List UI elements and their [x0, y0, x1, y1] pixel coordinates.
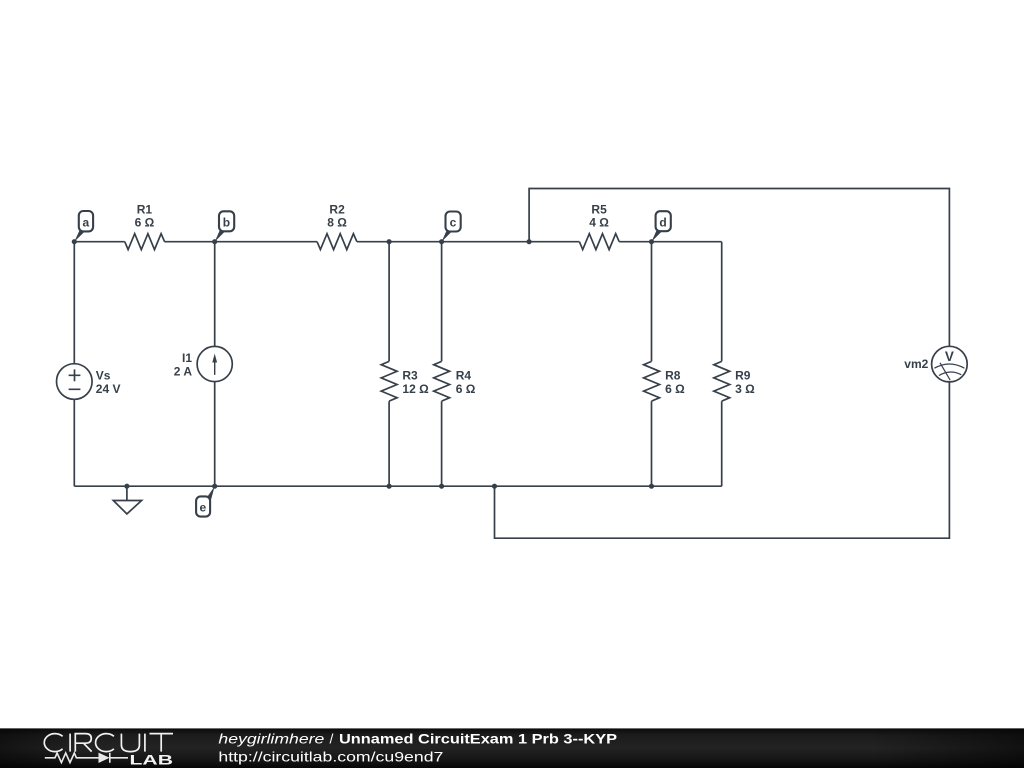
wire — [214, 242, 216, 487]
node a label — [74, 211, 93, 242]
svg-text:http://circuitlab.com/cu9end7: http://circuitlab.com/cu9end7 — [218, 749, 443, 765]
wire — [74, 485, 721, 487]
svg-text:3 Ω: 3 Ω — [735, 382, 755, 396]
resistor R9 — [714, 361, 730, 401]
voltmeter vm2 — [932, 346, 968, 382]
resistor R2 — [317, 234, 357, 250]
wire — [74, 241, 721, 243]
svg-text:LAB: LAB — [130, 751, 174, 767]
svg-text:4 Ω: 4 Ω — [589, 215, 609, 229]
resistor R1 — [125, 234, 165, 250]
junction ground — [124, 484, 129, 489]
svg-text:d: d — [659, 215, 666, 229]
svg-text:2 A: 2 A — [174, 365, 193, 379]
ground — [113, 486, 141, 514]
node b label — [215, 211, 235, 241]
node c label — [442, 212, 461, 242]
svg-text:V: V — [945, 349, 954, 364]
svg-text:a: a — [82, 216, 89, 230]
resistor R3 — [381, 361, 397, 401]
svg-text:R2: R2 — [329, 202, 345, 216]
junction — [649, 484, 654, 489]
wire — [529, 189, 949, 347]
svg-text:e: e — [200, 501, 207, 515]
junction — [492, 484, 497, 489]
CircuitLab logo CIRCUIT — [44, 734, 173, 752]
footer bar — [0, 728, 1024, 768]
svg-text:6 Ω: 6 Ω — [665, 382, 685, 396]
resistor R5 — [579, 234, 619, 250]
CircuitLab logo resistor-diode — [45, 753, 128, 763]
svg-text:vm2: vm2 — [904, 357, 928, 371]
wire — [73, 242, 75, 487]
arrowhead of I1 — [212, 354, 217, 363]
resistor R4 — [434, 361, 450, 401]
wire — [651, 242, 653, 487]
svg-text:Unnamed CircuitExam 1 Prb 3--K: Unnamed CircuitExam 1 Prb 3--KYP — [339, 731, 617, 747]
node d label — [652, 211, 671, 242]
node D dot — [649, 239, 654, 244]
voltage source Vs — [57, 364, 93, 400]
wire — [388, 242, 390, 487]
svg-text:6 Ω: 6 Ω — [456, 382, 476, 396]
svg-text:heygirlimhere: heygirlimhere — [218, 731, 324, 747]
node E dot — [212, 484, 217, 489]
svg-text:R9: R9 — [735, 368, 751, 382]
svg-text:R1: R1 — [137, 202, 153, 216]
wire — [721, 242, 723, 487]
junction — [527, 239, 532, 244]
svg-text:6 Ω: 6 Ω — [135, 215, 155, 229]
wire — [495, 382, 950, 538]
svg-text:/: / — [330, 731, 334, 747]
junction — [439, 484, 444, 489]
svg-text:8 Ω: 8 Ω — [327, 215, 347, 229]
svg-text:I1: I1 — [182, 351, 192, 365]
svg-text:R4: R4 — [456, 368, 472, 382]
wire — [441, 242, 443, 487]
svg-text:12 Ω: 12 Ω — [402, 382, 429, 396]
svg-text:c: c — [450, 216, 457, 230]
node C dot — [439, 239, 444, 244]
node A dot — [72, 239, 77, 244]
svg-text:b: b — [223, 216, 230, 230]
resistor R8 — [644, 361, 660, 401]
svg-text:R3: R3 — [402, 368, 418, 382]
svg-text:R5: R5 — [591, 202, 607, 216]
node B dot — [212, 239, 217, 244]
node e label — [196, 486, 215, 516]
svg-text:24 V: 24 V — [96, 382, 121, 396]
svg-text:R8: R8 — [665, 368, 681, 382]
junction — [387, 239, 392, 244]
junction — [387, 484, 392, 489]
svg-text:Vs: Vs — [96, 368, 111, 382]
current source I1 — [197, 346, 232, 381]
